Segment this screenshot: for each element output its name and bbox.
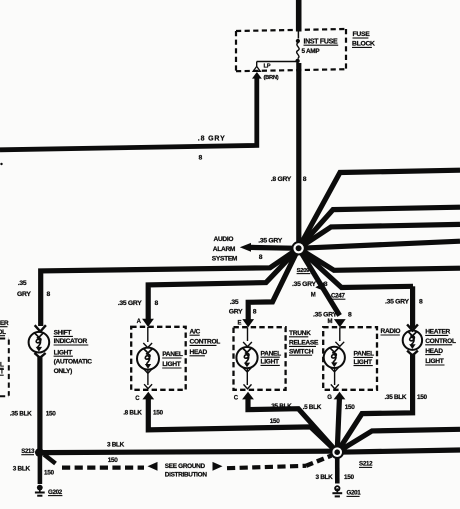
svg-text:PANEL: PANEL <box>162 351 183 358</box>
svg-text:.8 BLK: .8 BLK <box>123 409 142 416</box>
svg-text:.35 BLK: .35 BLK <box>270 403 292 410</box>
svg-text:INDICATOR: INDICATOR <box>54 338 88 345</box>
svg-text:A/C: A/C <box>190 328 201 335</box>
svg-text:ER: ER <box>0 320 9 327</box>
svg-text:SEE GROUND: SEE GROUND <box>165 463 206 470</box>
svg-text:3 BLK: 3 BLK <box>316 474 334 481</box>
svg-text:.35 GRY: .35 GRY <box>118 300 142 307</box>
svg-text:8: 8 <box>419 299 423 306</box>
svg-text:AUDIO: AUDIO <box>214 236 234 243</box>
svg-text:LIGHT: LIGHT <box>261 359 280 366</box>
svg-text:S212: S212 <box>359 461 373 468</box>
svg-text:8: 8 <box>253 309 257 316</box>
svg-text:SHIFT: SHIFT <box>54 330 72 337</box>
svg-text:HEAD: HEAD <box>190 349 208 356</box>
svg-text:150: 150 <box>417 394 428 401</box>
svg-text:T: T <box>0 368 4 375</box>
svg-text:(AUTOMATIC: (AUTOMATIC <box>54 359 93 366</box>
svg-text:E: E <box>238 321 242 327</box>
svg-text:LP: LP <box>264 64 271 70</box>
svg-text:.35 BLK: .35 BLK <box>10 410 32 417</box>
svg-text:.5 BLK: .5 BLK <box>303 404 322 411</box>
svg-text:8: 8 <box>155 300 159 307</box>
svg-text:GRY: GRY <box>17 291 31 298</box>
svg-text:150: 150 <box>46 410 57 417</box>
svg-text:8: 8 <box>303 176 307 183</box>
svg-text:INST FUSE: INST FUSE <box>304 38 338 45</box>
svg-text:M: M <box>311 293 316 299</box>
svg-text:LIGHT: LIGHT <box>354 359 373 366</box>
svg-text:BLOCK: BLOCK <box>352 41 375 48</box>
svg-text:8: 8 <box>199 155 203 162</box>
svg-text:M: M <box>328 319 333 325</box>
svg-text:G: G <box>327 395 332 401</box>
svg-text:PANEL: PANEL <box>354 351 375 358</box>
svg-text:.35 BLK: .35 BLK <box>385 394 407 401</box>
svg-text:.35: .35 <box>18 280 27 287</box>
svg-text:G202: G202 <box>48 489 63 496</box>
svg-text:150: 150 <box>153 409 164 416</box>
svg-text:RADIO: RADIO <box>381 328 401 335</box>
svg-text:8: 8 <box>348 312 352 319</box>
svg-text:8: 8 <box>324 281 328 288</box>
svg-text:S213: S213 <box>21 449 35 455</box>
svg-text:DISTRIBUTION: DISTRIBUTION <box>165 471 208 478</box>
svg-text:C247: C247 <box>331 292 345 299</box>
svg-text:HEAD: HEAD <box>425 348 443 355</box>
svg-text:TRUNK: TRUNK <box>289 330 311 337</box>
svg-text:150: 150 <box>345 404 356 411</box>
svg-text:3 BLK: 3 BLK <box>107 441 125 448</box>
svg-text:150: 150 <box>270 418 281 425</box>
svg-text:150: 150 <box>108 457 119 464</box>
svg-text:.35 GRY: .35 GRY <box>313 312 337 319</box>
svg-text:OL: OL <box>0 329 6 336</box>
svg-text:SWITCH: SWITCH <box>289 348 314 355</box>
svg-text:.35 GRY: .35 GRY <box>385 299 409 306</box>
svg-text:CONTROL: CONTROL <box>190 339 221 346</box>
svg-text:8: 8 <box>47 291 51 298</box>
svg-text:150: 150 <box>344 474 355 481</box>
svg-text:GRY: GRY <box>229 309 243 316</box>
svg-text:PANEL: PANEL <box>261 350 282 357</box>
svg-text:LIGHT: LIGHT <box>54 349 73 356</box>
svg-text:RELEASE: RELEASE <box>289 340 319 347</box>
svg-text:.8 GRY: .8 GRY <box>198 136 226 143</box>
svg-text:3 BLK: 3 BLK <box>13 465 31 472</box>
svg-text:(BRN): (BRN) <box>264 75 279 81</box>
svg-text:SYSTEM: SYSTEM <box>212 256 238 263</box>
svg-text:.35: .35 <box>230 299 239 306</box>
svg-text:LIGHT: LIGHT <box>162 361 181 368</box>
svg-text:5 AMP: 5 AMP <box>302 48 321 55</box>
svg-text:FUSE: FUSE <box>353 31 371 38</box>
svg-text:.8 GRY: .8 GRY <box>271 176 292 183</box>
svg-text:LIGHT: LIGHT <box>425 358 444 365</box>
svg-text:8: 8 <box>259 254 263 261</box>
svg-text:CONTROL: CONTROL <box>425 338 456 345</box>
svg-text:ONLY): ONLY) <box>54 368 73 375</box>
svg-text:.35 GRY: .35 GRY <box>258 238 282 245</box>
svg-text:150: 150 <box>44 470 55 477</box>
svg-text:.35 GRY: .35 GRY <box>292 281 316 288</box>
svg-text:HEATER: HEATER <box>425 329 450 336</box>
svg-text:G201: G201 <box>347 490 362 497</box>
svg-text:ALARM: ALARM <box>213 246 236 253</box>
